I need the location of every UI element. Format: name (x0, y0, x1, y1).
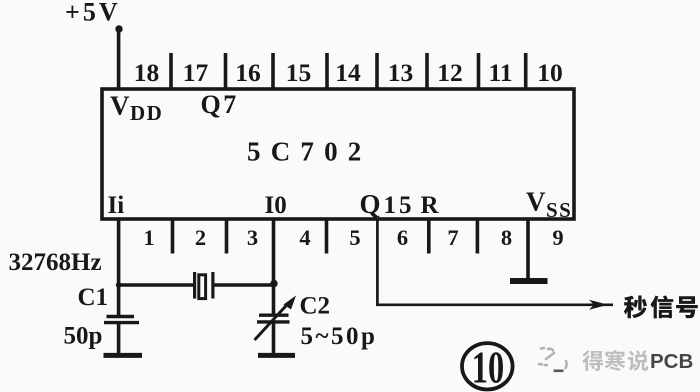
pin lead bottom 8 (476, 219, 480, 254)
pin lead top 14 (325, 53, 329, 90)
+5V node dot (115, 25, 122, 32)
pin lead top 15 (271, 53, 275, 90)
output arrowhead (589, 300, 608, 310)
pin lead top 10 (524, 53, 528, 90)
wire I0 pin4 down to C2 (272, 219, 276, 315)
node junction I0/C2 (270, 280, 277, 287)
pin lead top 17 (169, 53, 173, 90)
svg-text:I0: I0 (265, 192, 287, 219)
wire C2 to ground bar (272, 324, 276, 355)
svg-text:8: 8 (501, 225, 512, 250)
crystal Y1 right plate (211, 272, 214, 299)
IC U1 5C702 body (102, 89, 574, 219)
pin lead top 16 (224, 53, 228, 90)
svg-text:9: 9 (552, 225, 563, 250)
crystal Y1 left plate (193, 272, 196, 299)
svg-text:11: 11 (488, 58, 512, 87)
svg-text:R: R (421, 192, 440, 219)
svg-text:Q15: Q15 (360, 189, 415, 219)
pin lead bottom 3 (225, 219, 229, 254)
pin lead bottom 2 (171, 219, 175, 254)
ground symbol under pin 9 (510, 278, 548, 284)
svg-text:6: 6 (397, 225, 408, 250)
wire Ii pin1 down to C1 (117, 219, 121, 315)
svg-text:10: 10 (472, 343, 504, 392)
crystal Y1 body (199, 275, 206, 299)
svg-text:5~50p: 5~50p (301, 323, 378, 350)
node junction Ii/crystal (116, 282, 122, 288)
wire crystal left segment (119, 283, 194, 287)
svg-text:17: 17 (183, 58, 209, 87)
svg-text:C2: C2 (300, 293, 331, 320)
svg-text:Q7: Q7 (201, 90, 239, 119)
svg-text:4: 4 (299, 225, 310, 250)
wire VSS pin9 to ground (526, 219, 530, 279)
svg-text:1: 1 (143, 225, 154, 250)
wire Q15 pin6 output (377, 219, 613, 305)
svg-text:15: 15 (286, 58, 312, 87)
capacitor C1 top plate (107, 315, 135, 318)
svg-text:10: 10 (537, 58, 563, 87)
svg-text:7: 7 (447, 225, 458, 250)
svg-text:18: 18 (134, 58, 160, 87)
capacitor C2 top plate (259, 314, 289, 317)
pin lead top 11 (477, 53, 481, 90)
pin lead top 13 (375, 53, 379, 90)
C2 trimmer arrowhead (284, 296, 297, 310)
pin lead bottom 7 (427, 219, 431, 254)
ground bar under C1 (104, 353, 143, 358)
svg-text:50p: 50p (64, 323, 103, 350)
capacitor C2 bottom plate (257, 320, 290, 323)
C2 trimmer arrow shaft (255, 303, 290, 341)
pin lead top 12 (425, 53, 429, 90)
svg-text:2: 2 (195, 225, 206, 250)
svg-text:5: 5 (349, 225, 360, 250)
watermark logo (539, 348, 567, 368)
wire C1 to ground bar (117, 324, 121, 354)
svg-text:Ii: Ii (108, 192, 125, 219)
svg-text:C1: C1 (78, 284, 109, 311)
svg-text:14: 14 (335, 58, 361, 87)
capacitor C1 bottom plate (104, 321, 139, 324)
wire +5V to pin 18 (117, 29, 121, 90)
svg-text:3: 3 (247, 225, 258, 250)
svg-text:32768Hz: 32768Hz (9, 249, 102, 276)
ground bar under C2 (258, 353, 295, 358)
svg-text:13: 13 (388, 58, 414, 87)
output label 秒信号 (624, 296, 647, 319)
svg-text:+5V: +5V (65, 0, 121, 27)
svg-text:5C702: 5C702 (247, 137, 372, 167)
figure number circle (462, 343, 513, 389)
svg-text:16: 16 (235, 58, 261, 87)
svg-text:12: 12 (437, 58, 463, 87)
pin lead bottom 5 (325, 219, 329, 254)
wire crystal right segment (214, 283, 273, 287)
svg-text:PCB: PCB (650, 350, 693, 373)
watermark text (582, 350, 693, 373)
